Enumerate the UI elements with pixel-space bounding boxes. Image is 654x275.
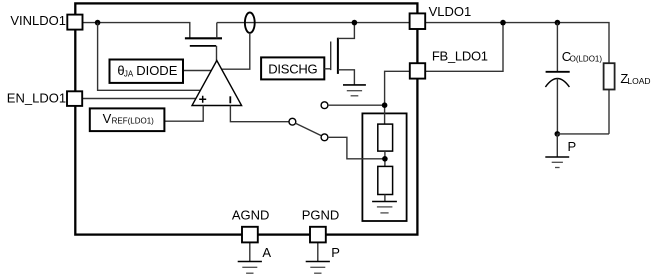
wire current sense to error amp right side	[220, 33, 250, 69]
svg-text:P: P	[568, 139, 577, 154]
IC block outline	[75, 3, 417, 234]
svg-text:LOAD: LOAD	[627, 76, 650, 86]
capacitor bottom lead	[556, 79, 558, 134]
capacitor C_O(LDO1) plates	[545, 72, 569, 87]
label Z_LOAD	[620, 71, 650, 86]
node P output ground node	[555, 131, 561, 137]
switch blade	[296, 123, 322, 136]
wire Q1 gate to error amp output	[216, 46, 218, 62]
node VIN junction	[95, 20, 101, 26]
node capacitor tap on output rail	[555, 20, 561, 26]
svg-text:DIODE: DIODE	[136, 63, 178, 78]
wire divider bottom to ground	[384, 195, 386, 202]
svg-text:FB_LDO1: FB_LDO1	[432, 49, 488, 64]
node Q2 drain on output rail	[352, 20, 358, 26]
op-amp minus input label	[229, 96, 231, 103]
wire divider middle	[384, 151, 386, 166]
switch common contact	[289, 118, 296, 125]
svg-text:O(LDO1): O(LDO1)	[570, 54, 603, 63]
label C_O(LDO1)	[562, 49, 603, 64]
pin VLDO1	[410, 13, 426, 29]
svg-text:VLDO1: VLDO1	[429, 4, 472, 19]
label P bottom	[331, 245, 340, 260]
wire DISCHG to Q2 gate	[324, 68, 330, 70]
wire FB_LDO1 pin to divider top	[385, 71, 410, 124]
wire VLDO1 output external rail	[425, 23, 609, 64]
label P right	[568, 139, 577, 154]
pin EN_LDO1	[67, 91, 82, 106]
pin PGND	[310, 227, 326, 243]
op-amp U1 error amplifier	[192, 61, 242, 106]
ground AGND	[238, 243, 262, 274]
pin FB_LDO1	[410, 63, 425, 78]
label VLDO1	[429, 4, 472, 19]
wire VINLDO1 to pass FET source	[83, 22, 191, 24]
svg-text:A: A	[262, 245, 271, 260]
svg-text:AGND: AGND	[232, 208, 270, 223]
svg-text:DISCHG: DISCHG	[268, 61, 317, 76]
transistor Q1 pass PMOS source leg	[189, 23, 191, 39]
wire lower contact to divider midpoint	[328, 137, 385, 159]
transistor Q1 channel bar	[185, 37, 222, 39]
node FB junction	[382, 102, 388, 108]
wire FB_LDO1 external to output rail	[425, 23, 503, 72]
transistor Q1 gate bar	[190, 45, 216, 47]
svg-text:VINLDO1: VINLDO1	[10, 13, 66, 28]
transistor Q2 source to ground	[338, 70, 355, 85]
impedance Z_LOAD box	[604, 63, 615, 89]
label A	[262, 245, 271, 260]
current sense element (ellipse)	[245, 13, 255, 33]
label PGND	[302, 208, 340, 223]
svg-text:EN_LDO1: EN_LDO1	[7, 90, 66, 105]
VREF box wire to amp plus input	[164, 106, 203, 122]
pin VINLDO1	[67, 15, 82, 30]
resistor divider box	[362, 113, 406, 221]
DISCHG box	[261, 57, 324, 79]
wire upper contact to FB node	[328, 104, 385, 106]
label EN_LDO1	[7, 90, 66, 105]
node divider midpoint	[382, 156, 388, 162]
svg-text:JA: JA	[124, 70, 134, 79]
theta_JA diode box	[110, 60, 184, 83]
wire bottom rail to Z load	[557, 90, 609, 134]
svg-text:REF(LDO1): REF(LDO1)	[112, 117, 155, 126]
transistor Q2 drain to output rail	[338, 23, 355, 39]
resistor R bottom of divider	[378, 166, 393, 194]
svg-text:P: P	[331, 245, 340, 260]
node FB tap on output rail	[500, 20, 506, 26]
ground Q2 source	[343, 85, 366, 96]
ground divider	[372, 202, 397, 213]
wire EN_LDO1 to error amp	[82, 98, 198, 100]
switch upper contact	[321, 102, 328, 109]
transistor Q2 discharge gate bar	[330, 42, 332, 71]
theta_JA diode box wire to amp	[183, 70, 213, 72]
wire VIN junction to error-amp supply	[98, 23, 203, 91]
transistor Q2 channel bar	[337, 38, 339, 74]
label FB_LDO1	[432, 49, 488, 64]
transistor Q1 drain leg	[216, 23, 218, 39]
op-amp plus input label	[199, 96, 206, 103]
label AGND	[232, 208, 270, 223]
wire amp minus input to switch common	[230, 106, 289, 122]
resistor R top of divider	[378, 124, 393, 151]
VREF(LDO1) box	[90, 108, 165, 131]
pin AGND	[242, 227, 258, 243]
ground output P	[545, 134, 569, 168]
ground PGND	[306, 243, 330, 274]
wire Q1 drain to VLDO1 output rail	[217, 22, 410, 24]
svg-text:PGND: PGND	[302, 208, 340, 223]
switch lower contact	[321, 134, 328, 141]
svg-text:V: V	[103, 111, 112, 126]
label VINLDO1	[10, 13, 66, 28]
capacitor C_O(LDO1) top lead	[556, 23, 558, 72]
